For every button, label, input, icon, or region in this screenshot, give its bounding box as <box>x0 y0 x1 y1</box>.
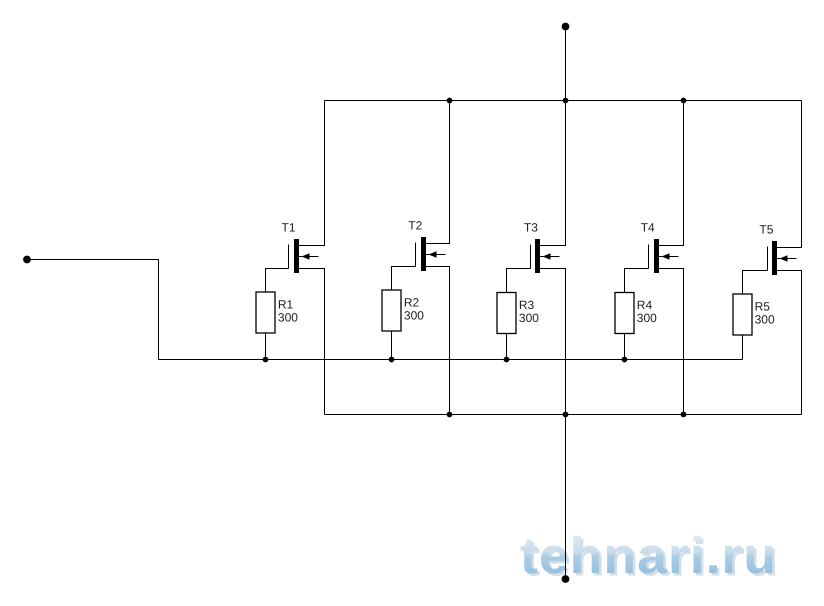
wire T4 gate to resistor R4 <box>625 269 649 293</box>
resistor R3 body <box>497 293 516 334</box>
wire T4 drain to top bus <box>659 101 684 246</box>
svg-text:T2: T2 <box>408 218 422 232</box>
wire T5 source to bottom bus <box>777 271 802 415</box>
junction node on gate bus x=624.5 <box>622 357 628 363</box>
watermark tehnari.ru <box>520 527 780 587</box>
junction node on bottom bus x=683.5 <box>681 412 687 418</box>
wire R3 to gate bus <box>506 334 508 360</box>
svg-text:tehnari.ru: tehnari.ru <box>520 527 777 584</box>
wire input lead <box>27 260 159 360</box>
wire top terminal lead <box>565 27 567 101</box>
wire T3 gate to resistor R3 <box>507 269 531 293</box>
junction node on gate bus x=391.5 <box>389 357 395 363</box>
wire T3 drain to top bus <box>540 101 566 246</box>
wire T2 drain to top bus <box>426 101 450 244</box>
wire T3 source to bottom bus <box>540 269 566 415</box>
junction node on top bus x=565.5 <box>563 98 569 104</box>
resistor R5 body <box>733 294 752 335</box>
wire R1 to gate bus <box>265 333 267 360</box>
input terminal node <box>23 256 31 264</box>
junction node on gate bus x=506.5 <box>504 357 510 363</box>
transistor T2 (MOSFET) <box>416 237 446 271</box>
junction node on bottom bus x=565.5 <box>563 412 569 418</box>
svg-text:300: 300 <box>519 311 539 325</box>
junction node on top bus x=449.5 <box>447 98 453 104</box>
resistor R2 body <box>382 290 401 331</box>
transistor T3 (MOSFET) <box>531 239 560 273</box>
svg-text:300: 300 <box>755 312 775 326</box>
wire T5 drain to top bus <box>777 101 802 248</box>
junction node on top bus x=683.5 <box>681 98 687 104</box>
transistor T5 (MOSFET) <box>768 241 797 275</box>
top terminal node <box>562 23 570 31</box>
wire R2 to gate bus <box>391 331 393 360</box>
bottom terminal node <box>562 575 570 583</box>
label R2 value 300 <box>404 296 424 323</box>
wire T1 source to bottom bus <box>299 269 325 415</box>
wire gate bus <box>159 359 743 361</box>
label R4 value 300 <box>637 298 657 325</box>
transistor T1 (MOSFET) <box>289 239 319 273</box>
transistor T4 (MOSFET) <box>649 239 679 273</box>
wire R5 to gate bus <box>742 335 744 360</box>
wire T1 gate to resistor R1 <box>266 269 289 293</box>
wire T4 source to bottom bus <box>659 269 684 415</box>
junction node on bottom bus x=449.5 <box>447 412 453 418</box>
wire top drain bus <box>325 100 802 102</box>
wire bottom terminal lead <box>565 415 567 580</box>
junction node on gate bus x=265.5 <box>263 357 269 363</box>
wire T2 source to bottom bus <box>426 267 450 415</box>
resistor R1 body <box>256 292 275 333</box>
label R3 value 300 <box>519 298 539 325</box>
svg-text:T3: T3 <box>524 220 538 234</box>
svg-text:T1: T1 <box>282 220 296 234</box>
wire R4 to gate bus <box>624 334 626 360</box>
wire bottom source bus <box>325 414 802 416</box>
svg-text:300: 300 <box>404 308 424 322</box>
label R5 value 300 <box>755 300 775 327</box>
svg-text:300: 300 <box>278 310 298 324</box>
wire T2 gate to resistor R2 <box>392 267 416 291</box>
wire T5 gate to resistor R5 <box>743 271 768 295</box>
wire T1 drain to top bus <box>299 101 325 246</box>
resistor R4 body <box>615 293 634 334</box>
label R1 value 300 <box>278 298 298 325</box>
svg-text:T4: T4 <box>641 220 655 234</box>
svg-text:300: 300 <box>637 311 657 325</box>
svg-text:T5: T5 <box>759 222 773 236</box>
